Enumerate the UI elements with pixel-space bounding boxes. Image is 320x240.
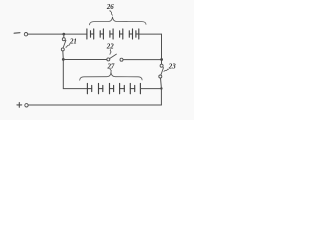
switch 21 contact bottom bbox=[61, 48, 64, 51]
switch 23 contact top bbox=[160, 64, 163, 67]
wire top horizontal bbox=[28, 33, 87, 35]
node junction row 2 right bbox=[160, 87, 162, 89]
switch 22 contact left bbox=[107, 58, 110, 61]
svg-text:26: 26 bbox=[106, 2, 114, 11]
switch 22 contact right bbox=[120, 58, 123, 61]
wire switch 23 bottom stub bbox=[160, 78, 163, 88]
wire middle right segment bbox=[123, 59, 162, 61]
brace 27 bbox=[80, 72, 142, 80]
switch 23 contact bottom bbox=[159, 75, 162, 78]
pointer squiggle for 26 bbox=[110, 10, 113, 15]
wire middle left segment bbox=[63, 59, 107, 61]
terminal circle positive bbox=[25, 104, 28, 107]
battery string 26 cells bbox=[87, 29, 139, 39]
node junction dot middle left bbox=[62, 58, 65, 61]
svg-text:22: 22 bbox=[106, 42, 114, 51]
battery string 27 cells bbox=[87, 83, 140, 93]
switch 23 blade bbox=[161, 68, 164, 75]
node junction dot top bbox=[62, 33, 65, 36]
svg-text:21: 21 bbox=[69, 37, 77, 46]
wire switch 21 top stub bbox=[63, 34, 65, 38]
wire right vertical lower bbox=[160, 88, 162, 105]
wire stubs between cells of string 27 bbox=[87, 88, 134, 90]
pointer squiggle for 21 bbox=[66, 44, 70, 47]
wire left vertical down to row 2 bbox=[63, 60, 87, 89]
svg-text:23: 23 bbox=[168, 62, 176, 71]
terminal minus sign bbox=[14, 32, 20, 35]
node junction dot middle right bbox=[160, 58, 163, 61]
switch 21 contact top bbox=[62, 38, 65, 41]
wire stubs between cells of string 26 bbox=[91, 33, 139, 35]
pointer squiggle for 23 bbox=[164, 69, 169, 71]
wire top right to corner bbox=[139, 33, 162, 35]
svg-text:27: 27 bbox=[107, 61, 116, 70]
wire switch 21 bottom stub bbox=[62, 51, 65, 59]
brace 26 bbox=[90, 17, 147, 25]
switch 21 blade bbox=[63, 40, 66, 48]
terminal plus sign bbox=[17, 104, 22, 106]
wire row 2 right segment bbox=[140, 88, 161, 90]
pointer squiggle for 22 bbox=[110, 50, 111, 55]
terminal circle negative bbox=[24, 33, 27, 36]
wire bottom horizontal bbox=[28, 104, 161, 106]
wire right vertical upper bbox=[161, 34, 163, 64]
pointer squiggle for 27 bbox=[110, 69, 111, 73]
switch 22 blade bbox=[110, 54, 117, 58]
